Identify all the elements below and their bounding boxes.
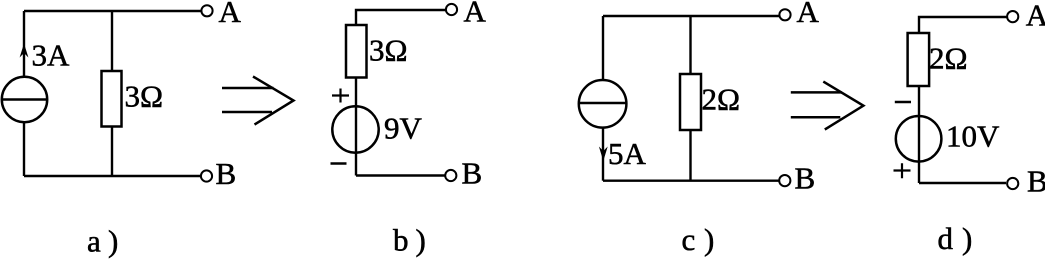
svg-text:): ) bbox=[704, 222, 714, 257]
circuit a: resistor branch top lead bbox=[111, 11, 113, 71]
node B terminal circuit b bbox=[445, 170, 456, 181]
current source Is2 bar bbox=[579, 102, 627, 105]
svg-text:5A: 5A bbox=[608, 136, 647, 171]
svg-text:A: A bbox=[1026, 0, 1045, 33]
circuit c: left wire upper (current source top lead) bbox=[602, 16, 604, 80]
voltage source Us1 minus polarity bbox=[331, 162, 347, 165]
node B terminal circuit a bbox=[201, 170, 212, 181]
svg-text:B: B bbox=[462, 156, 483, 191]
svg-text:): ) bbox=[962, 221, 972, 256]
svg-text:3Ω: 3Ω bbox=[369, 32, 408, 67]
resistor R3 body bbox=[680, 74, 701, 130]
svg-text:10V: 10V bbox=[946, 119, 1000, 154]
svg-text:3A: 3A bbox=[32, 38, 71, 73]
svg-text:3Ω: 3Ω bbox=[125, 78, 164, 113]
current source Is2 direction arrow (down) bbox=[599, 147, 608, 162]
node B terminal circuit d bbox=[1007, 178, 1018, 189]
circuit b: middle wire through voltage source bbox=[355, 78, 357, 176]
svg-text:b: b bbox=[393, 223, 409, 258]
circuit c: top wire bbox=[603, 15, 780, 17]
svg-text:c: c bbox=[682, 222, 696, 257]
circuit a: resistor branch bottom lead bbox=[111, 127, 113, 177]
node A terminal circuit b bbox=[446, 4, 457, 15]
current source Is1 direction arrow (up) bbox=[20, 44, 29, 58]
circuit a: left wire upper (current source top lead) bbox=[23, 11, 25, 77]
svg-text:a: a bbox=[87, 224, 101, 259]
circuit d: middle wire through voltage source bbox=[918, 86, 920, 183]
circuit b: bottom wire bbox=[356, 174, 445, 176]
node B terminal circuit c bbox=[779, 175, 790, 186]
circuit c: left wire lower (current source bottom lead) bbox=[602, 128, 604, 181]
transform arrow 2 bottom line bbox=[791, 116, 841, 119]
circuit c: resistor branch bottom lead bbox=[689, 130, 691, 181]
resistor R1 body bbox=[102, 71, 122, 127]
circuit c: bottom wire bbox=[603, 179, 779, 181]
voltage source Us1 circle bbox=[332, 106, 378, 152]
svg-text:2Ω: 2Ω bbox=[702, 82, 741, 117]
svg-text:d: d bbox=[938, 221, 954, 256]
voltage source Us1 plus polarity bbox=[332, 89, 349, 103]
transform arrow 1 bottom line bbox=[222, 111, 272, 114]
circuit a: top wire bbox=[24, 10, 202, 12]
node A terminal circuit c bbox=[779, 9, 790, 20]
node A terminal circuit a bbox=[201, 5, 212, 16]
voltage source Us2 plus polarity bbox=[894, 163, 911, 178]
current source Is1 circle bbox=[2, 77, 47, 122]
transform arrow 2 chevron bbox=[823, 82, 863, 130]
node A terminal circuit d bbox=[1007, 11, 1018, 22]
svg-text:A: A bbox=[219, 0, 242, 29]
voltage source Us2 minus polarity bbox=[895, 101, 911, 104]
svg-text:2Ω: 2Ω bbox=[929, 40, 968, 75]
svg-text:B: B bbox=[795, 161, 816, 196]
circuit b: top wire bbox=[356, 10, 446, 25]
circuit a: left wire lower (current source bottom lead) bbox=[23, 122, 25, 176]
svg-text:A: A bbox=[464, 0, 487, 29]
current source Is2 circle bbox=[579, 80, 627, 128]
circuit a: bottom wire bbox=[24, 175, 201, 177]
svg-text:): ) bbox=[416, 223, 426, 258]
voltage source Us2 circle bbox=[896, 116, 942, 162]
circuit c: resistor branch top lead bbox=[689, 16, 691, 74]
transform arrow 1 chevron bbox=[253, 77, 294, 125]
resistor R2 body bbox=[346, 25, 367, 78]
circuit d: top wire bbox=[919, 17, 1007, 33]
svg-text:9V: 9V bbox=[384, 111, 423, 146]
svg-text:B: B bbox=[1027, 164, 1045, 199]
resistor R4 body bbox=[908, 33, 930, 86]
current source Is1 bar bbox=[2, 98, 47, 101]
svg-text:): ) bbox=[108, 224, 118, 259]
transform arrow 1 top line bbox=[222, 87, 274, 90]
transform arrow 2 top line bbox=[791, 91, 842, 94]
svg-text:A: A bbox=[797, 0, 820, 29]
circuit d: bottom wire bbox=[919, 182, 1006, 184]
svg-text:B: B bbox=[216, 156, 237, 191]
